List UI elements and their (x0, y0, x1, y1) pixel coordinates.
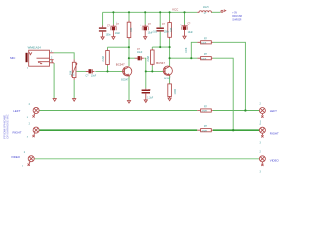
svg-text:R?: R? (204, 126, 208, 128)
svg-text:BC547: BC547 (121, 79, 129, 81)
svg-text:VIDEO: VIDEO (270, 158, 280, 162)
svg-text:100K: 100K (201, 42, 207, 44)
svg-text:10uH: 10uH (203, 7, 209, 9)
svg-text:100K: 100K (201, 58, 207, 60)
svg-text:+: + (140, 24, 142, 26)
svg-text:RIGHT: RIGHT (270, 131, 279, 135)
svg-text:2: 2 (29, 104, 31, 106)
svg-text:2: 2 (27, 68, 29, 70)
svg-text:2: 2 (260, 124, 262, 126)
svg-text:2: 2 (260, 103, 262, 105)
svg-text:3: 3 (27, 117, 29, 119)
svg-text:100R: 100R (175, 89, 177, 95)
svg-text:470R: 470R (202, 130, 208, 132)
svg-text:WM61A24: WM61A24 (28, 46, 42, 49)
svg-text:C?: C? (137, 49, 141, 51)
svg-text:L?: L? (204, 13, 207, 15)
svg-text:100K: 100K (186, 47, 188, 53)
svg-text:R?: R? (72, 72, 76, 76)
svg-text:10uF: 10uF (188, 32, 194, 34)
svg-text:R?: R? (204, 54, 208, 56)
svg-text:FROM USB: FROM USB (232, 14, 242, 18)
svg-text:LEFT: LEFT (270, 109, 277, 113)
svg-text:MIC: MIC (10, 56, 15, 60)
svg-text:2: 2 (260, 152, 262, 154)
svg-text:10uF: 10uF (115, 33, 121, 35)
svg-text:1: 1 (22, 165, 24, 167)
svg-text:R?: R? (204, 38, 208, 40)
svg-text:10K: 10K (131, 27, 133, 32)
svg-text:10uF: 10uF (137, 52, 143, 54)
svg-text:2: 2 (29, 124, 31, 126)
svg-text:VIDEO: VIDEO (11, 155, 21, 159)
svg-text:470R: 470R (202, 111, 208, 113)
svg-text:100n: 100n (164, 32, 170, 34)
svg-text:1.2uF: 1.2uF (147, 98, 153, 100)
svg-text:BC547: BC547 (116, 63, 125, 67)
svg-text:C?: C? (162, 24, 166, 26)
svg-text:10K: 10K (171, 27, 173, 32)
svg-text:VCC: VCC (172, 8, 179, 12)
svg-text:C?: C? (116, 24, 120, 26)
svg-text:2.2M: 2.2M (148, 56, 150, 61)
svg-text:10u: 10u (153, 32, 158, 34)
svg-text:CHARGER: CHARGER (232, 18, 241, 22)
svg-text:3: 3 (260, 143, 262, 145)
svg-text:C?: C? (187, 24, 191, 26)
svg-text:LEFT: LEFT (13, 109, 20, 113)
svg-text:C?: C? (86, 75, 90, 77)
svg-text:2.2M: 2.2M (103, 56, 105, 61)
svg-text:100n: 100n (106, 35, 112, 37)
svg-text:BC547: BC547 (164, 78, 171, 80)
svg-text:3: 3 (260, 171, 262, 173)
svg-text:10uF: 10uF (91, 75, 97, 77)
svg-text:BC547: BC547 (156, 61, 165, 65)
svg-text:RIGHT: RIGHT (13, 130, 22, 134)
svg-text:C?: C? (148, 24, 152, 26)
svg-text:OR KARAOKE MIC: OR KARAOKE MIC (6, 114, 9, 139)
svg-text:3: 3 (27, 137, 29, 139)
svg-text:R?: R? (204, 107, 208, 109)
svg-text:C?: C? (148, 90, 152, 92)
svg-text:+ 5V: + 5V (232, 11, 237, 15)
svg-text:2: 2 (24, 152, 26, 154)
